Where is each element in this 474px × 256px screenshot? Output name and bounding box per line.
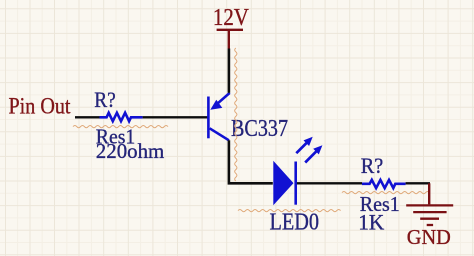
wire: Pin Out to R1 <box>75 116 100 118</box>
squiggle under LED <box>238 209 341 211</box>
LED emission arrow 2 <box>305 145 322 162</box>
ground GND power port <box>406 183 453 225</box>
svg-text:BC337: BC337 <box>231 116 288 142</box>
wire: LED cathode to R2 <box>297 182 362 184</box>
squiggle under wire to R2 <box>342 191 429 193</box>
resistor R1 <box>100 113 143 121</box>
squiggle along collector wire <box>235 48 237 181</box>
squiggle under wire at R1 <box>73 125 168 127</box>
LED emission arrow 1 <box>296 137 312 153</box>
power port 12V <box>217 30 243 49</box>
svg-text:12V: 12V <box>213 5 250 31</box>
wire: R2 to GND <box>406 182 430 184</box>
svg-text:R?: R? <box>94 87 116 112</box>
transistor Q1 emitter arrowhead <box>210 100 222 110</box>
svg-text:GND: GND <box>407 225 451 249</box>
wire: 12V to Q1 collector <box>228 49 231 93</box>
svg-text:Pin Out: Pin Out <box>9 94 72 119</box>
svg-text:LED0: LED0 <box>270 209 320 235</box>
svg-text:1K: 1K <box>358 209 384 234</box>
LED LED0 <box>273 161 295 206</box>
resistor R2 <box>362 180 406 188</box>
wire: Q1 emitter to LED anode <box>229 140 273 183</box>
svg-text:220ohm: 220ohm <box>96 139 165 163</box>
wire: R1 to Q1 base <box>143 116 208 118</box>
svg-text:R?: R? <box>361 153 384 178</box>
transistor Q1 <box>208 93 229 140</box>
